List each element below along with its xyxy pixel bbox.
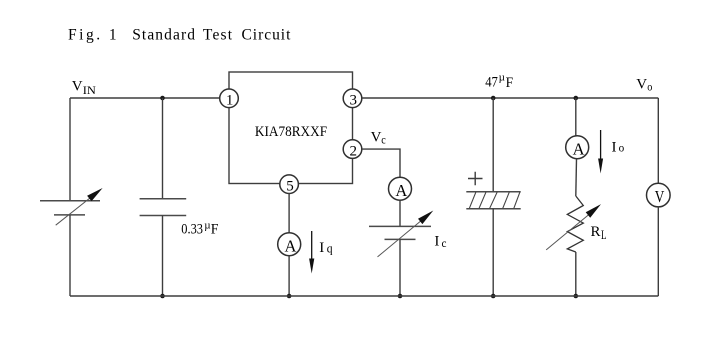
label Vc bbox=[371, 130, 386, 147]
wire: ground rail (bottom) bbox=[70, 295, 658, 297]
current arrow Iq bbox=[309, 231, 314, 274]
svg-text:IN: IN bbox=[83, 85, 97, 97]
svg-text:1: 1 bbox=[226, 93, 234, 109]
wire: pin 2 to Vc branch corner bbox=[362, 149, 400, 177]
current arrow Io bbox=[598, 130, 603, 174]
wire: output rail pin 3 to Vo bbox=[362, 97, 659, 99]
svg-text:R: R bbox=[591, 224, 601, 240]
svg-text:5: 5 bbox=[286, 179, 294, 195]
label VIN bbox=[72, 79, 97, 97]
IC U1 KIA78RXXF body bbox=[229, 72, 353, 184]
variable DC source VIN (battery with diagonal arrow) bbox=[40, 188, 103, 225]
ammeter A (quiescent current Iq) bbox=[278, 233, 301, 256]
variable load resistor RL bbox=[546, 196, 601, 252]
svg-text:3: 3 bbox=[350, 93, 358, 109]
wire: 47uF branch bottom bbox=[492, 209, 494, 296]
label Io bbox=[612, 140, 625, 156]
svg-text:0.33: 0.33 bbox=[181, 222, 203, 238]
svg-text:I: I bbox=[612, 140, 617, 156]
wire: Vo right vertical top bbox=[657, 98, 659, 184]
label Vo bbox=[636, 76, 652, 93]
capacitor C1 0.33uF bbox=[140, 199, 187, 216]
label 0.33uF bbox=[181, 220, 218, 238]
wire: 0.33uF branch top bbox=[162, 98, 164, 199]
svg-text:F: F bbox=[211, 222, 219, 238]
svg-text:µ: µ bbox=[499, 72, 505, 84]
label RL bbox=[591, 224, 607, 242]
wire: 47uF branch top bbox=[492, 98, 494, 192]
node: Ic bottom junction bbox=[398, 294, 403, 299]
label 47uF bbox=[485, 72, 513, 91]
svg-text:µ: µ bbox=[204, 220, 210, 232]
svg-text:I: I bbox=[434, 234, 439, 250]
label KIA78RXXF bbox=[255, 124, 327, 140]
wire: ammeter to Ic source bbox=[399, 200, 401, 226]
capacitor C2 47uF electrolytic (hatched plate) bbox=[466, 192, 520, 209]
node: Iq bottom junction bbox=[287, 294, 292, 299]
wire: 0.33uF branch bottom bbox=[162, 216, 164, 297]
wire: RL to ground rail bbox=[575, 252, 577, 296]
svg-text:o: o bbox=[647, 80, 652, 94]
svg-text:c: c bbox=[381, 133, 386, 147]
variable current sink Ic (battery with diagonal arrow) bbox=[369, 211, 433, 257]
svg-text:Test: Test bbox=[203, 27, 233, 44]
svg-text:Standard: Standard bbox=[132, 27, 195, 44]
svg-text:Circuit: Circuit bbox=[242, 27, 292, 44]
svg-text:47: 47 bbox=[485, 75, 498, 91]
node: 47uF branch junction on output rail bbox=[491, 96, 496, 101]
wire: left vertical, input source top bbox=[69, 98, 71, 200]
wire: voltmeter to ground rail bbox=[657, 207, 659, 296]
svg-text:o: o bbox=[619, 141, 625, 155]
voltmeter V (output voltage) bbox=[647, 183, 671, 207]
node: 47uF bottom junction bbox=[491, 294, 496, 299]
pin 1 bbox=[220, 89, 239, 109]
pin 5 bbox=[280, 175, 299, 195]
svg-text:KIA78RXXF: KIA78RXXF bbox=[255, 124, 327, 140]
node: junction of 0.33uF branch on input rail bbox=[160, 96, 165, 101]
wire: pin 5 down to quiescent-current ammeter bbox=[288, 194, 290, 233]
svg-text:Fig.: Fig. bbox=[68, 27, 100, 44]
figure title bbox=[68, 27, 291, 44]
svg-text:I: I bbox=[319, 240, 324, 256]
svg-text:q: q bbox=[327, 240, 333, 255]
node: RL branch junction on output rail bbox=[574, 96, 579, 101]
wire: RL branch top bbox=[575, 98, 577, 136]
pin 2 bbox=[343, 140, 362, 160]
polarity label + for 47uF bbox=[468, 172, 483, 185]
node: 0.33uF bottom junction bbox=[160, 294, 165, 299]
svg-text:A: A bbox=[573, 139, 585, 158]
svg-text:V: V bbox=[636, 76, 647, 92]
wire: ammeter Io to RL bbox=[575, 159, 578, 196]
wire: Ic branch bottom bbox=[399, 239, 401, 296]
label Ic bbox=[434, 234, 446, 250]
node: RL bottom junction bbox=[574, 294, 579, 299]
svg-text:V: V bbox=[655, 187, 665, 206]
wire: top-left rail from VIN source to pin 1 bbox=[70, 97, 220, 99]
ammeter A (control current, Vc branch) bbox=[389, 177, 412, 200]
ammeter A (output current Io) bbox=[566, 136, 589, 159]
label Iq bbox=[319, 240, 333, 256]
svg-text:V: V bbox=[72, 79, 83, 95]
wire: left vertical, input source bottom bbox=[69, 215, 71, 296]
svg-text:1: 1 bbox=[109, 27, 117, 44]
svg-text:A: A bbox=[285, 236, 297, 255]
pin 3 bbox=[343, 89, 362, 109]
svg-text:c: c bbox=[442, 236, 447, 250]
svg-text:F: F bbox=[506, 75, 513, 91]
wire: Iq ammeter to ground rail bbox=[288, 256, 290, 296]
svg-text:2: 2 bbox=[350, 144, 358, 160]
svg-text:L: L bbox=[601, 227, 607, 242]
svg-text:A: A bbox=[395, 181, 407, 200]
svg-text:V: V bbox=[371, 130, 382, 146]
